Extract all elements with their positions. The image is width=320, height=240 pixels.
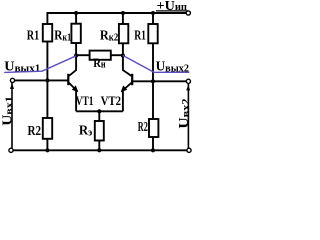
wire leader Uвых1 (blue): [4, 56, 76, 73]
wire VT2 collector lead: [122, 43, 124, 70]
svg-text:VT1: VT1: [76, 93, 94, 108]
node base VT1 / R divider: [45, 78, 49, 82]
wire VT2 emitter down: [122, 90, 124, 111]
node collector VT1 / Rн: [74, 53, 78, 57]
svg-text:R2: R2: [28, 124, 42, 139]
wire emitter join: [76, 110, 123, 112]
transistor VT2: [121, 70, 133, 93]
node collector VT2 / Rн: [121, 53, 125, 57]
terminal input 2 top: [186, 79, 190, 83]
wire input 2 rail: [187, 84, 189, 149]
wire VT1 collector lead: [75, 43, 77, 70]
wire right branch middle: [152, 43, 154, 119]
wire R1 right top lead: [152, 13, 154, 24]
wire VT2 base: [132, 80, 186, 82]
terminal +Uип: [186, 11, 190, 15]
arrow input 1: [10, 83, 14, 89]
wire Rэ top lead: [98, 111, 100, 121]
base bar VT1: [67, 74, 69, 85]
wire left branch bottom lead: [46, 139, 48, 151]
terminal input 1 top: [10, 78, 14, 82]
base bar VT2: [131, 74, 133, 85]
wire right branch bottom lead: [152, 137, 154, 150]
node bottom R2 left: [45, 148, 49, 152]
resistor Rн: [90, 51, 111, 60]
wire leader Uвых2 (blue): [123, 56, 189, 73]
wire Rн left: [76, 54, 90, 56]
node bottom R2 right: [151, 148, 155, 152]
emitter arrow VT1: [72, 85, 79, 92]
wire left branch middle: [46, 42, 48, 119]
resistor R1 (left): [43, 24, 52, 42]
resistor R2 (right): [149, 119, 158, 137]
resistor Rк2: [119, 24, 128, 43]
collector diagonal VT1: [69, 70, 77, 77]
underline of +Uип: [156, 10, 188, 12]
wire VT1 emitter down: [75, 90, 77, 111]
wire Rн right: [111, 54, 123, 56]
wire top supply rail: [47, 12, 186, 14]
svg-text:R1: R1: [134, 28, 146, 43]
resistor Rэ: [95, 121, 104, 141]
terminal input 1 bottom: [9, 148, 13, 152]
transistor VT1: [68, 70, 78, 93]
emitter diagonal VT1: [69, 82, 78, 91]
svg-text:R2: R2: [138, 119, 148, 134]
node Rк1 top junction: [74, 11, 78, 15]
wire input 1 rail: [11, 83, 13, 148]
terminal input 2 bottom: [187, 148, 191, 152]
wire Rк1 top lead: [75, 13, 77, 24]
wire left branch top lead: [46, 12, 48, 24]
node emitter join / Rэ: [97, 109, 101, 113]
node base VT2 / R divider: [151, 79, 155, 83]
emitter arrow VT2: [121, 85, 128, 92]
node bottom Rэ: [97, 148, 101, 152]
resistor R1 (right): [148, 24, 157, 43]
svg-text:R1: R1: [27, 28, 39, 43]
resistor Rк1: [71, 24, 80, 43]
wire Rк2 top lead: [122, 13, 124, 24]
wire VT1 base: [15, 79, 69, 81]
node R1 right top junction: [151, 11, 155, 15]
resistor R2 (left): [43, 118, 52, 139]
wire bottom rail: [13, 149, 187, 151]
svg-text:VT2: VT2: [101, 93, 121, 108]
collector diagonal VT2: [122, 70, 131, 77]
emitter diagonal VT2: [122, 82, 132, 91]
node Rк2 top junction: [121, 11, 125, 15]
wire Rэ bottom lead: [98, 141, 100, 151]
arrow input 2: [186, 85, 190, 90]
